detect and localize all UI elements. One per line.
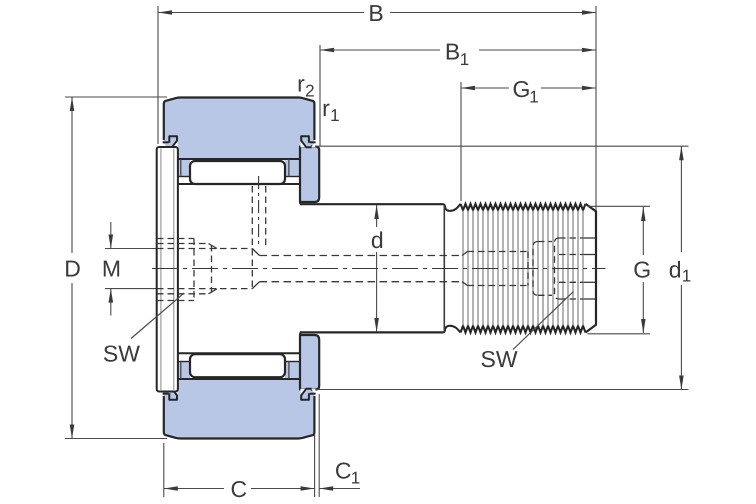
svg-text:r: r bbox=[297, 71, 305, 97]
svg-text:1: 1 bbox=[351, 469, 360, 488]
svg-text:SW: SW bbox=[481, 346, 518, 372]
svg-text:D: D bbox=[64, 255, 81, 281]
svg-text:1: 1 bbox=[460, 50, 469, 69]
svg-text:d: d bbox=[371, 227, 384, 253]
svg-text:2: 2 bbox=[305, 82, 314, 101]
svg-text:C: C bbox=[230, 476, 247, 502]
svg-text:1: 1 bbox=[682, 267, 691, 286]
svg-text:B: B bbox=[445, 39, 460, 65]
svg-text:M: M bbox=[102, 255, 121, 281]
svg-text:C: C bbox=[335, 457, 352, 483]
svg-text:G: G bbox=[513, 76, 531, 102]
svg-text:r: r bbox=[322, 95, 330, 121]
svg-text:G: G bbox=[633, 257, 651, 283]
svg-text:SW: SW bbox=[103, 340, 140, 366]
svg-text:1: 1 bbox=[529, 88, 538, 107]
svg-text:B: B bbox=[368, 0, 383, 26]
svg-text:d: d bbox=[669, 257, 682, 283]
svg-text:1: 1 bbox=[330, 106, 339, 125]
